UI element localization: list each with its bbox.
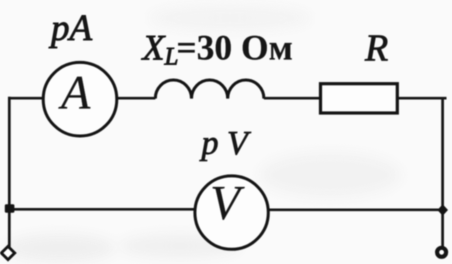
inductor L (3 arcs) (155, 80, 264, 99)
voltmeter PV circle (195, 176, 268, 249)
svg-text:XL=30 Ом: XL=30 Ом (141, 28, 293, 71)
wire ammeter to inductor (117, 97, 156, 100)
svg-text:R: R (364, 28, 388, 70)
svg-text:pA: pA (48, 8, 93, 49)
wire resistor to right corner (397, 97, 446, 100)
wire left vertical (8, 97, 11, 247)
terminal right (437, 248, 446, 257)
wire inductor to resistor (264, 97, 320, 100)
svg-text:p V: p V (200, 125, 253, 162)
wire bottom right horizontal (267, 209, 443, 212)
ammeter PA circle (43, 62, 117, 136)
resistor R body (321, 84, 398, 113)
wire bottom left horizontal (9, 208, 196, 211)
wire top-left horizontal (8, 97, 44, 100)
terminal left (1, 246, 14, 259)
junction left node (5, 204, 15, 212)
svg-text:A: A (58, 67, 91, 120)
svg-text:V: V (210, 175, 245, 230)
wire right vertical (441, 97, 444, 247)
junction right node (437, 204, 448, 215)
